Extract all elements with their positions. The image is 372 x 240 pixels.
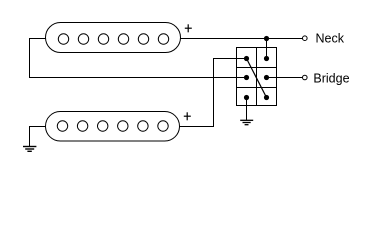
pickup P1 plus polarity label bbox=[185, 24, 192, 32]
wire: switch middle-right contact to Bridge terminal bbox=[267, 77, 303, 79]
wire: P2 ground side to left bbox=[30, 127, 46, 147]
switch SW1 body bbox=[237, 48, 277, 106]
terminal: Bridge output bbox=[303, 75, 308, 80]
wire: P1 hot to Neck terminal bbox=[181, 38, 303, 40]
ground symbol (switch common) bbox=[240, 120, 253, 124]
junction: neck wire to switch pole stub bbox=[264, 36, 269, 41]
switch SW1 row divider 1 bbox=[237, 67, 277, 69]
pickup P2 pole pieces bbox=[57, 121, 168, 131]
pickup P2 plus polarity label bbox=[184, 112, 191, 120]
switch SW1 lever (diagonal) bbox=[247, 59, 267, 98]
svg-text:Neck: Neck bbox=[316, 31, 345, 45]
svg-text:Bridge: Bridge bbox=[313, 71, 349, 85]
wire: P1 ground side, left and down then to switch middle-left contact bbox=[30, 39, 247, 78]
wire: P2 hot right, up to switch top-left contact bbox=[180, 59, 247, 127]
pickup P1 pole pieces bbox=[58, 34, 168, 44]
wire: switch bottom-left contact down to ground bbox=[246, 98, 248, 121]
ground symbol (bridge pickup) bbox=[23, 147, 36, 152]
terminal: Neck output bbox=[303, 36, 308, 41]
switch SW1 column divider bbox=[256, 48, 258, 106]
switch SW1 contact dots bbox=[244, 56, 269, 100]
wire: switch top-right contact stub up to neck wire bbox=[266, 39, 268, 59]
pickup P1 (neck pickup) body bbox=[46, 23, 181, 53]
switch SW1 row divider 2 bbox=[237, 87, 277, 89]
pickup P2 (bridge pickup) body bbox=[46, 112, 180, 142]
